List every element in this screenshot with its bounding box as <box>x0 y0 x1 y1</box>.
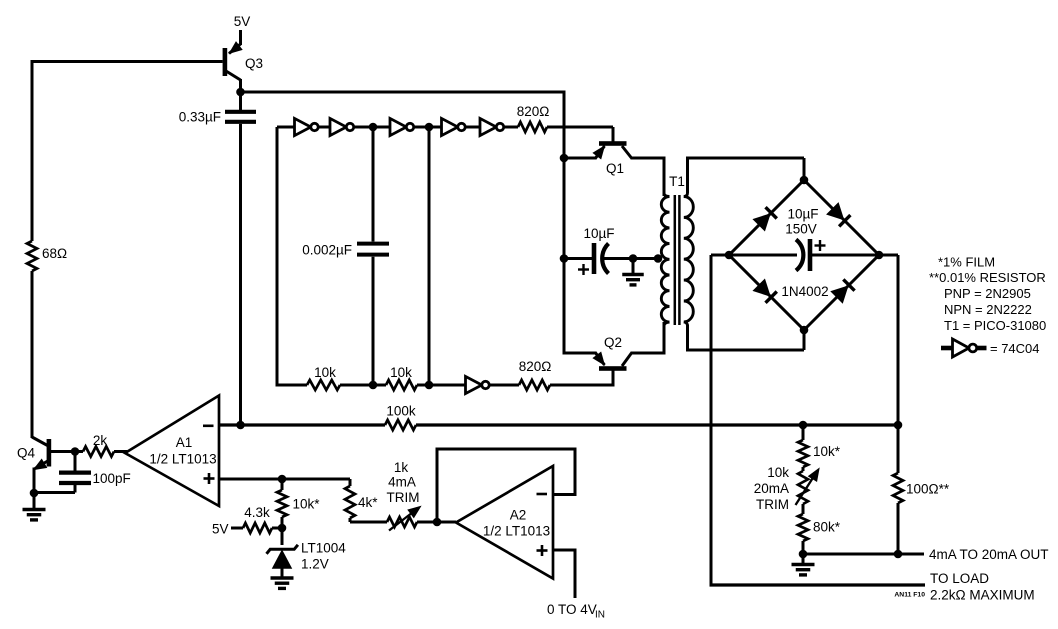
capacitor bridge plus sign <box>815 244 826 246</box>
wire Q3 collector <box>226 71 241 80</box>
wire 5V stub <box>231 527 243 530</box>
wire 10k-1 to node <box>340 384 373 387</box>
wire bridge edge bottom-left <box>729 255 804 330</box>
wire 0.33uF to A1 inverting bus <box>239 124 242 425</box>
svg-text:TRIM: TRIM <box>756 497 789 512</box>
capacitor 10uF/150V curved plate <box>796 240 803 271</box>
svg-text:100Ω**: 100Ω** <box>906 482 950 497</box>
transformer T1 primary feed bottom <box>664 322 670 326</box>
node 10uF junction on x564 <box>560 254 569 263</box>
transistor Q3 <box>223 48 228 76</box>
resistor 10k bottom-2 <box>386 380 417 390</box>
wire 5V to Q3 emitter <box>239 30 242 45</box>
wire right node down <box>879 254 898 257</box>
wire DC- rail to load <box>710 583 926 586</box>
potentiometer 1k 4mA TRIM <box>387 517 417 527</box>
wire 820ohm to Q1 base <box>547 126 613 129</box>
svg-text:TO LOAD: TO LOAD <box>930 571 989 586</box>
node A2 input junction <box>433 518 442 527</box>
inverter U1f <box>466 376 482 393</box>
node bridge right <box>875 251 884 260</box>
wire left node to DC- rail <box>711 254 729 257</box>
node bus x240 <box>236 421 245 430</box>
resistor 68ohm <box>27 241 37 271</box>
transformer T1 secondary winding <box>684 197 694 322</box>
capacitor 10uF plus sign <box>578 268 589 270</box>
wire Q1 collector <box>622 146 632 158</box>
node bus x898 <box>894 421 903 430</box>
wire U1a to U1b <box>319 126 331 129</box>
capacitor 100pF top stub <box>74 452 77 471</box>
wire x564 vertical (Q3 line down to Q2) <box>563 91 566 355</box>
svg-text:**0.01% RESISTOR: **0.01% RESISTOR <box>929 270 1046 285</box>
wire 2k to A1 output <box>114 450 127 453</box>
op-amp A1 <box>125 396 219 507</box>
diode D4 (bottom to right) <box>831 286 848 303</box>
svg-text:5V: 5V <box>234 14 251 29</box>
capacitor 10uF curved plate <box>602 244 608 274</box>
svg-text:100k: 100k <box>386 404 416 419</box>
wire Q4 base <box>51 450 83 453</box>
diode D3 (left to bottom) <box>753 279 770 296</box>
wire 80k* to output node <box>802 541 805 554</box>
node bridge top <box>800 176 809 185</box>
svg-text:A2: A2 <box>510 508 527 523</box>
svg-text:68Ω: 68Ω <box>42 246 67 261</box>
svg-text:10k: 10k <box>314 365 336 380</box>
potentiometer TRIM arrow <box>796 473 817 505</box>
svg-text:1N4002: 1N4002 <box>781 284 828 299</box>
svg-text:AN11 F10: AN11 F10 <box>894 592 925 599</box>
capacitor 10uF/150V plus plate <box>808 239 813 271</box>
ground at LT1004 <box>281 568 284 578</box>
op-amp A2 plus sign <box>537 549 548 552</box>
svg-text:4mA TO 20mA OUT: 4mA TO 20mA OUT <box>929 547 1049 562</box>
resistor 80k* <box>798 514 808 541</box>
wire bridge edge top-left <box>729 180 804 255</box>
zener diode LT1004 cathode <box>267 545 298 554</box>
svg-text:4mA: 4mA <box>388 475 416 490</box>
inverter U1b <box>330 118 346 135</box>
svg-text:Q4: Q4 <box>17 446 36 461</box>
svg-text:TRIM: TRIM <box>387 490 420 505</box>
inverter U1d <box>442 118 458 135</box>
potentiometer 1k arrow <box>389 509 417 531</box>
wire 10k-2 stubs <box>373 384 386 387</box>
wire vertical x373 upper <box>372 127 375 242</box>
capacitor 100pF bottom stub <box>74 485 77 493</box>
svg-text:4.3k: 4.3k <box>244 505 270 520</box>
svg-text:NPN = 2N2222: NPN = 2N2222 <box>944 302 1032 317</box>
op-amp A2 <box>456 466 553 579</box>
op-amp A1 plus sign <box>204 477 215 480</box>
resistor 820ohm bottom <box>519 380 550 390</box>
svg-text:Q1: Q1 <box>606 161 624 176</box>
transformer T1 primary winding <box>661 197 669 323</box>
resistor 100ohm** <box>893 473 903 503</box>
wire pot to A2 input <box>417 521 456 524</box>
svg-text:80k*: 80k* <box>813 520 841 535</box>
wire bridge edge bottom-right <box>804 255 879 330</box>
transistor Q3 emitter arrow <box>230 42 242 53</box>
inverter U1c <box>390 118 406 135</box>
resistor 10k bottom-1 <box>307 380 340 390</box>
svg-text:10k*: 10k* <box>293 497 321 512</box>
node output ground junction <box>799 550 808 559</box>
svg-text:150V: 150V <box>785 222 817 237</box>
transistor Q4 <box>47 439 52 467</box>
wire bridge cap right <box>812 254 879 257</box>
wire A2 noninverting input <box>553 549 577 552</box>
transformer T1 primary feed top <box>663 157 666 194</box>
inverter U1e <box>480 118 496 135</box>
node output x898 <box>894 550 903 559</box>
node bottom row x429 <box>425 381 434 390</box>
ground at 10uF tap <box>632 259 635 275</box>
resistor 820ohm top <box>518 122 547 132</box>
svg-text:A1: A1 <box>176 435 193 450</box>
svg-text:1.2V: 1.2V <box>301 557 329 572</box>
node ground tap junction <box>629 254 638 263</box>
node Q3 collector junction <box>236 88 245 97</box>
wire U1b to node <box>354 126 374 129</box>
node bottom row x373 <box>369 381 378 390</box>
svg-text:0.002µF: 0.002µF <box>302 243 352 258</box>
wire node to U1f <box>429 384 466 387</box>
wire U1f to 820ohm bottom <box>490 384 520 387</box>
node Q4 base junction <box>71 447 80 456</box>
ground at output divider <box>802 554 805 564</box>
diode D1 (left to top) <box>753 214 770 231</box>
svg-text:10µF: 10µF <box>787 207 818 222</box>
wire node B to U1d <box>429 126 442 129</box>
transformer T1 core <box>674 195 677 325</box>
svg-text:10k: 10k <box>390 365 412 380</box>
svg-text:2k: 2k <box>93 433 108 448</box>
capacitor 0.002uF <box>357 242 389 246</box>
wire secondary bottom to bridge bottom node <box>688 349 805 352</box>
svg-text:IN: IN <box>595 610 605 621</box>
transistor Q2 <box>599 366 627 371</box>
wire bridge cap left <box>729 254 797 257</box>
svg-text:0 TO 4V: 0 TO 4V <box>547 602 597 617</box>
wire U1c to node B <box>414 126 429 129</box>
wire secondary top to bridge top node <box>688 157 805 160</box>
wire Q3 base <box>32 60 223 63</box>
resistor 10k* vertical <box>281 479 284 490</box>
node reference junction <box>278 524 287 533</box>
transformer T1 secondary feed bottom <box>684 322 688 326</box>
svg-text:*1% FILM: *1% FILM <box>938 255 995 270</box>
node transformer center tap <box>654 254 663 263</box>
node bus x803 <box>799 421 808 430</box>
wire 100ohm to output <box>897 503 900 554</box>
wire U1d to U1e <box>466 126 481 129</box>
svg-text:5V: 5V <box>212 522 229 537</box>
wire A1 noninverting input <box>219 478 350 481</box>
op-amp A2 minus sign <box>537 493 548 496</box>
svg-text:10k: 10k <box>767 465 789 480</box>
diode D2 (top to right) <box>827 203 844 220</box>
transistor Q4 emitter arrow <box>34 459 47 469</box>
svg-text:Q2: Q2 <box>604 335 622 350</box>
svg-text:1/2 LT1013: 1/2 LT1013 <box>483 524 550 539</box>
svg-text:Q3: Q3 <box>245 56 263 71</box>
wire trimpot to 80k* <box>802 504 805 514</box>
wire 4.3k to node <box>272 527 282 530</box>
potentiometer 10k 20mA TRIM <box>798 471 808 504</box>
transistor Q2 emitter arrow <box>593 352 604 364</box>
wire Q4 collector <box>31 435 34 439</box>
node chain B (x429) <box>425 123 434 132</box>
wire vertical x429 <box>428 127 431 387</box>
resistor 100ohm** upper stub <box>897 425 900 473</box>
transformer T1 secondary feed top <box>686 157 689 194</box>
svg-text:PNP = 2N2905: PNP = 2N2905 <box>944 286 1031 301</box>
svg-text:10µF: 10µF <box>583 226 614 241</box>
wire output line <box>803 553 924 556</box>
wire Q4 emitter <box>35 461 49 469</box>
wire node A to U1c <box>373 126 390 129</box>
inverter U1a <box>295 118 311 135</box>
wire bus to 10k* trim chain <box>802 425 805 440</box>
svg-text:T1: T1 <box>669 174 685 189</box>
wire 10uF to tap <box>604 257 660 260</box>
wire bus 100k to right <box>416 423 898 426</box>
svg-text:100pF: 100pF <box>93 471 131 486</box>
note 74C04 symbol <box>941 346 953 351</box>
transistor Q1 <box>599 141 627 146</box>
svg-text:1/2 LT1013: 1/2 LT1013 <box>149 452 216 467</box>
wire U1e to 820ohm <box>504 126 518 129</box>
capacitor 100pF <box>59 471 91 475</box>
svg-text:0.33µF: 0.33µF <box>179 110 221 125</box>
wire node to zener <box>281 528 284 545</box>
wire A1 inverting input bus <box>219 423 385 426</box>
wire 820ohm to Q2 base <box>550 384 613 387</box>
svg-text:10k*: 10k* <box>813 444 841 459</box>
wire Q1 emitter <box>564 157 596 160</box>
node bridge left <box>725 251 734 260</box>
ground at Q4 <box>33 493 36 509</box>
resistor 4k* <box>345 486 355 518</box>
svg-text:820Ω: 820Ω <box>519 359 552 374</box>
svg-text:2.2kΩ MAXIMUM: 2.2kΩ MAXIMUM <box>930 588 1035 603</box>
node Q4 emitter junction <box>30 489 39 498</box>
svg-text:LT1004: LT1004 <box>301 541 346 556</box>
wire left vertical upper (Q3 base to 68ohm) <box>31 60 34 241</box>
node chain A (x373) <box>369 123 378 132</box>
resistor 10k* (top of trim chain) <box>798 440 808 467</box>
node A1 plus x282 <box>278 475 287 484</box>
capacitor 10uF plus plate <box>592 243 597 274</box>
zener diode LT1004 anode triangle <box>273 551 291 568</box>
wire A2 feedback <box>553 493 577 496</box>
resistor 100k <box>385 420 416 430</box>
wire Q3 junction to x564 (top horizontal) <box>241 91 565 94</box>
wire 10k* to trimpot <box>802 467 805 471</box>
wire vertical x373 lower <box>372 257 375 387</box>
resistor 4.3k <box>243 523 272 533</box>
svg-text:4k*: 4k* <box>358 495 378 510</box>
capacitor 0.33uF <box>225 110 256 114</box>
wire bottom row left <box>276 384 308 387</box>
wire A1 plus to 4k* <box>349 479 352 486</box>
svg-text:1k: 1k <box>394 460 409 475</box>
op-amp A1 minus sign <box>203 424 214 427</box>
wire chain feedback corner <box>277 126 295 129</box>
wire left vertical lower (68ohm to Q4 collector) <box>31 271 34 438</box>
node bridge bottom <box>800 326 809 335</box>
wire Q2 collector <box>622 353 632 366</box>
wire x564 to 10uF plus plate <box>564 257 592 260</box>
node Q1 emitter junction <box>560 154 569 163</box>
svg-text:820Ω: 820Ω <box>517 104 550 119</box>
svg-text:= 74C04: = 74C04 <box>990 341 1040 356</box>
resistor 2k <box>83 447 114 457</box>
svg-text:20mA: 20mA <box>754 481 789 496</box>
svg-text:T1 = PICO-31080: T1 = PICO-31080 <box>944 318 1046 333</box>
wire bridge edge top-right <box>804 180 879 255</box>
wire chain left vertical <box>276 127 279 387</box>
transistor Q1 emitter arrow <box>593 146 604 158</box>
wire 4k* corner <box>349 518 352 522</box>
wire Q2 emitter <box>564 352 596 355</box>
